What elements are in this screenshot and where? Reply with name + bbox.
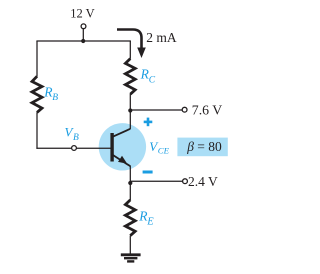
svg-text:2.4 V: 2.4 V: [188, 174, 218, 189]
current arrow 2 mA: [117, 30, 146, 59]
wire left vertical upper (to RB): [36, 41, 38, 77]
transistor Q1 base bar: [110, 133, 113, 162]
wire emitter node to 2.4V terminal: [130, 180, 182, 182]
svg-text:12 V: 12 V: [70, 7, 94, 21]
wire 12V supply stub: [82, 29, 84, 41]
transistor Q1 body circle: [99, 123, 146, 170]
junction dot emitter node: [128, 181, 132, 185]
terminal 12V open circle: [81, 24, 86, 29]
wire collector top vertical: [129, 41, 131, 59]
terminal 2.4V open circle: [183, 179, 188, 184]
svg-text:E: E: [146, 216, 154, 227]
terminal 7.6V open circle: [182, 107, 187, 112]
junction dot at 12V tap: [81, 39, 85, 43]
resistor RC zigzag: [125, 59, 135, 95]
junction dot collector node: [128, 108, 132, 112]
wire base horizontal: [36, 147, 111, 149]
svg-text:C: C: [149, 75, 156, 85]
ground symbol: [121, 255, 141, 262]
label minus sign: [143, 171, 153, 174]
wire collector node to 7.6V terminal: [130, 109, 182, 111]
wire RC to collector node: [129, 94, 131, 129]
wire top horizontal from RB branch to RC branch: [36, 40, 130, 42]
wire emitter vertical to node: [129, 166, 131, 183]
resistor RE zigzag: [125, 200, 135, 236]
transistor Q1 collector lead: [113, 129, 131, 137]
wire RE to ground: [129, 236, 131, 254]
label plus sign: [144, 118, 153, 127]
highlight box beta = 80: [177, 138, 227, 157]
svg-text:B: B: [52, 93, 58, 103]
svg-text:2 mA: 2 mA: [146, 30, 177, 45]
svg-text:B: B: [73, 133, 79, 143]
svg-text:β = 80: β = 80: [186, 139, 222, 154]
wire emitter node to RE: [129, 183, 131, 200]
transistor Q1 emitter lead: [113, 155, 131, 167]
svg-text:CE: CE: [158, 146, 170, 156]
terminal VB open circle: [72, 146, 77, 151]
resistor RB zigzag: [32, 76, 42, 112]
transistor Q1 emitter arrowhead: [118, 156, 127, 164]
wire left vertical lower (RB to base rail): [36, 112, 38, 149]
svg-text:7.6 V: 7.6 V: [192, 103, 222, 118]
